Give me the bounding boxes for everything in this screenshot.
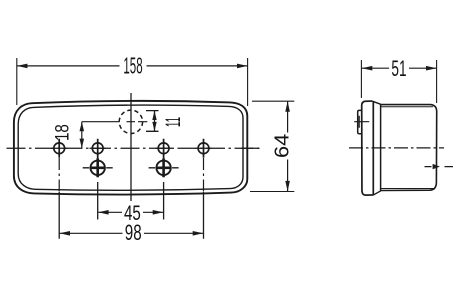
svg-text:64: 64 <box>271 134 293 158</box>
svg-text:158: 158 <box>123 53 142 78</box>
svg-text:98: 98 <box>125 222 142 246</box>
svg-text:18: 18 <box>51 124 73 141</box>
svg-text:51: 51 <box>391 56 406 81</box>
svg-text:11: 11 <box>161 117 185 127</box>
